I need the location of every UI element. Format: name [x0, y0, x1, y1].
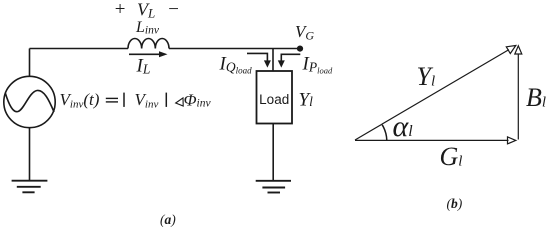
svg-text:αl: αl: [393, 110, 414, 143]
svg-text:Load: Load: [259, 92, 289, 107]
ground (load) line 1: [256, 180, 291, 182]
wire: load bottom to ground: [272, 124, 274, 181]
angle symbol: [176, 98, 184, 106]
wire: inductor right lead to node VG: [169, 48, 300, 50]
svg-text:Bl: Bl: [526, 83, 546, 112]
angle arc alpha: [382, 125, 387, 140]
svg-text:Linv: Linv: [135, 19, 160, 37]
svg-text:Vinv: Vinv: [135, 90, 159, 110]
phasor Yl vector: [355, 46, 516, 141]
label Vinv(t) equation: [60, 90, 167, 110]
svg-text:Φinv: Φinv: [184, 90, 212, 109]
svg-text:IPload: IPload: [302, 53, 333, 75]
svg-text:−: −: [167, 0, 180, 20]
node VG junction dot: [297, 46, 303, 52]
svg-text:IL: IL: [136, 55, 151, 76]
load box: [257, 71, 293, 124]
ground (load) line 3: [268, 192, 281, 194]
wire: vertical from top wire down to AC source top: [29, 49, 31, 77]
svg-text:VG: VG: [295, 22, 314, 43]
svg-text:(a): (a): [160, 212, 176, 227]
ground (load) line 2: [262, 187, 285, 189]
svg-text:(b): (b): [447, 196, 463, 211]
svg-text:Gl: Gl: [440, 142, 463, 171]
ground (source) line 3: [22, 191, 34, 193]
wire: top horizontal from source corner to inductor: [30, 48, 129, 50]
ground (source) line 1: [12, 180, 48, 182]
svg-text:Vinv(t): Vinv(t): [60, 90, 100, 110]
wire: AC source bottom to ground: [29, 128, 31, 181]
phasor Bl vector: [515, 46, 522, 140]
AC source sine waveform: [5, 90, 54, 112]
phasor Gl vector: [355, 137, 516, 144]
svg-text:+: +: [114, 0, 127, 20]
ground (source) line 2: [17, 186, 41, 188]
wire: vertical from top wire into load box: [272, 49, 274, 72]
current arrow IPload (bent, into load): [278, 54, 301, 67]
current arrow IQload (bent, into load): [247, 53, 271, 67]
svg-text:Yl: Yl: [299, 89, 314, 110]
svg-text:Yl: Yl: [417, 62, 436, 91]
svg-text:VL: VL: [137, 0, 155, 21]
AC source V1 circle: [4, 76, 55, 127]
inductor Linv (three humps): [128, 38, 169, 48]
current arrow IL under inductor: [129, 51, 168, 57]
svg-text:IQload: IQload: [219, 53, 253, 75]
